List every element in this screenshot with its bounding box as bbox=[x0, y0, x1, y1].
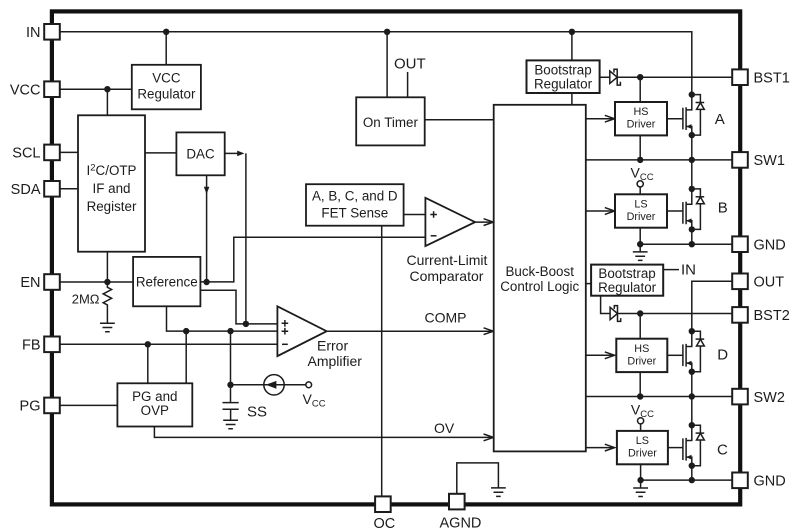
wire error amp output COMP to buck-boost logic bbox=[327, 330, 493, 332]
node: junction SW2 / FET D-C bbox=[689, 393, 695, 399]
svg-text:Regulator: Regulator bbox=[137, 87, 196, 102]
node: junction IN rail / bootstrap regulator 1 bbox=[569, 29, 575, 35]
svg-text:IN: IN bbox=[681, 262, 696, 279]
ground below SS capacitor bbox=[223, 420, 238, 429]
wire bootstrap regulator 1 top to IN rail bbox=[571, 32, 573, 61]
wire SS node branch down to capacitor bbox=[230, 331, 232, 402]
svg-text:Comparator: Comparator bbox=[410, 268, 484, 284]
wire buck-boost to LS driver C (with arrow) bbox=[586, 447, 614, 449]
svg-text:Current-Limit: Current-Limit bbox=[407, 252, 488, 268]
wire EN pin to Reference bbox=[60, 281, 133, 283]
svg-text:Regulator: Regulator bbox=[534, 77, 593, 92]
svg-text:Register: Register bbox=[87, 199, 137, 214]
node: junction BST1 / HS driver A bbox=[637, 74, 643, 80]
svg-text:Regulator: Regulator bbox=[598, 280, 657, 295]
wire LS driver B to FET B gate bbox=[667, 210, 683, 212]
wire FET B source to GND rail bbox=[691, 229, 693, 244]
svg-text:Bootstrap: Bootstrap bbox=[534, 63, 591, 78]
svg-text:SS: SS bbox=[247, 403, 267, 420]
wire DAC net vertical down to error amp + node bbox=[245, 153, 247, 324]
svg-text:HS: HS bbox=[634, 106, 649, 118]
wire bootstrap regulator 1 bottom to buck-boost logic bbox=[571, 93, 573, 105]
wire SS node to Vcc terminal through current source bbox=[231, 384, 306, 386]
pin OC bbox=[375, 496, 391, 512]
svg-text:BST1: BST1 bbox=[754, 70, 790, 86]
block Bootstrap Regulator 1 bbox=[527, 60, 600, 93]
svg-text:IN: IN bbox=[26, 25, 41, 41]
svg-text:OVP: OVP bbox=[141, 403, 169, 418]
svg-text:LS: LS bbox=[634, 199, 647, 211]
ground at AGND bbox=[491, 488, 506, 497]
svg-text:D: D bbox=[717, 346, 728, 363]
svg-text:Driver: Driver bbox=[627, 211, 656, 223]
svg-text:SW2: SW2 bbox=[754, 390, 785, 406]
ground on upper GND rail bbox=[633, 252, 648, 261]
svg-text:AGND: AGND bbox=[440, 516, 482, 532]
svg-text:OV: OV bbox=[434, 420, 455, 436]
wire VCC pin to VCC Regulator bbox=[60, 88, 132, 90]
pin SW2 bbox=[732, 389, 748, 405]
wire DAC bottom down to reference node with arrow bbox=[206, 175, 208, 282]
svg-text:2MΩ: 2MΩ bbox=[72, 291, 100, 306]
svg-text:Bootstrap: Bootstrap bbox=[598, 266, 655, 281]
wire bootstrap 2 bottom to BST2 rail with diode D2 bbox=[601, 296, 733, 314]
svg-text:C: C bbox=[717, 441, 728, 458]
wire On Timer to buck-boost logic bbox=[425, 119, 494, 121]
block LS Driver B bbox=[615, 194, 667, 227]
svg-text:FET Sense: FET Sense bbox=[321, 206, 388, 221]
block HS Driver A bbox=[615, 102, 667, 135]
wire IN rail (top) bbox=[60, 32, 692, 95]
pin GND (lower) bbox=[732, 473, 748, 489]
wire BST1 node down to HS driver A bbox=[639, 77, 641, 102]
svg-text:HS: HS bbox=[634, 343, 649, 355]
wire I2C to DAC bbox=[145, 152, 176, 154]
op-amp error amplifier bbox=[277, 306, 326, 356]
pin SDA bbox=[44, 181, 60, 197]
node: junction IN rail / VCC regulator bbox=[163, 29, 169, 35]
svg-text:Control Logic: Control Logic bbox=[500, 279, 579, 294]
wire VCC node down to I2C top bbox=[106, 89, 108, 115]
block A,B,C,D FET Sense bbox=[306, 184, 404, 226]
wire OC pin up to FET sense bbox=[381, 226, 383, 497]
wire FET sense to comparator + input bbox=[404, 214, 426, 216]
block PG and OVP bbox=[117, 383, 192, 426]
node: junction SW1 / FET A-B bbox=[689, 157, 695, 163]
wire soft-start node down to PG and OVP bbox=[185, 331, 187, 383]
wire BST2 node down to HS driver D bbox=[639, 314, 641, 339]
wire FET A source to SW1 / SW1 to FET B drain bbox=[691, 135, 693, 189]
diode D1 (schottky) bbox=[610, 69, 621, 85]
wire HS driver D to FET D gate bbox=[667, 354, 683, 356]
block VCC Regulator bbox=[132, 65, 201, 110]
svg-text:Amplifier: Amplifier bbox=[308, 353, 363, 369]
wire LS driver B to GND rail bbox=[639, 228, 641, 245]
wire GND rail (lower) bbox=[641, 479, 733, 481]
svg-text:SW1: SW1 bbox=[754, 153, 785, 169]
svg-text:VCC: VCC bbox=[152, 71, 181, 86]
node: junction GND rail / FET B source bbox=[689, 241, 695, 247]
svg-text:BST2: BST2 bbox=[754, 308, 790, 324]
wire I2C bottom to EN node bbox=[106, 252, 108, 282]
svg-text:COMP: COMP bbox=[425, 310, 467, 326]
wire LS driver C to GND rail (lower) bbox=[640, 464, 642, 480]
transistor C (low-side boost FET) bbox=[683, 422, 704, 469]
svg-text:OC: OC bbox=[374, 516, 396, 532]
svg-text:VCC: VCC bbox=[10, 82, 41, 98]
svg-text:OUT: OUT bbox=[754, 275, 785, 291]
wire FB node down to PG and OVP bbox=[147, 344, 149, 383]
block Bootstrap Regulator 2 bbox=[591, 265, 663, 296]
comparator current-limit bbox=[425, 198, 475, 246]
wire Reference out to error amp + input (upper) bbox=[200, 290, 277, 324]
pin BST2 bbox=[732, 307, 748, 323]
svg-text:Driver: Driver bbox=[627, 119, 656, 131]
resistor R 2MOhm below EN node bbox=[103, 282, 111, 323]
pin OUT bbox=[732, 274, 748, 290]
block HS Driver D bbox=[616, 339, 667, 372]
wire SDA pin to I2C bbox=[60, 188, 78, 190]
pin SW1 bbox=[732, 152, 748, 168]
svg-text:On Timer: On Timer bbox=[363, 115, 419, 130]
terminal Vcc (open circle) for SS charge current bbox=[306, 382, 312, 388]
transistor D (high-side boost FET) bbox=[683, 328, 704, 375]
wire SCL pin to I2C bbox=[60, 151, 78, 153]
svg-text:IF and: IF and bbox=[93, 181, 131, 196]
wire FET C source to GND rail (lower) bbox=[691, 466, 693, 480]
svg-text:Error: Error bbox=[317, 338, 348, 354]
ground on lower GND rail bbox=[633, 488, 648, 497]
node: junction SW1 / HS driver A bbox=[637, 157, 643, 163]
block On Timer bbox=[356, 97, 425, 145]
svg-text:FB: FB bbox=[22, 338, 41, 354]
wire BST1 rail with bootstrap diode D1 bbox=[600, 76, 733, 78]
svg-text:Reference: Reference bbox=[136, 274, 198, 289]
pin AGND bbox=[449, 494, 465, 510]
wire OUT stub into On Timer bbox=[407, 72, 409, 97]
current source (circle with left arrow) bbox=[264, 375, 284, 395]
wire LS driver C to FET C gate bbox=[668, 447, 683, 449]
svg-text:LS: LS bbox=[636, 435, 649, 447]
svg-text:GND: GND bbox=[754, 237, 786, 253]
wire buck-boost to bootstrap regulator 2 bbox=[586, 283, 591, 285]
svg-text:OUT: OUT bbox=[394, 56, 426, 73]
wire GND rail (upper) bbox=[640, 243, 732, 245]
transistor A (high-side buck FET) bbox=[683, 91, 704, 138]
wire Reference out to current-limit comparator - input bbox=[200, 237, 425, 282]
block LS Driver C bbox=[617, 431, 668, 464]
wire DAC output right with arrow bbox=[225, 152, 238, 154]
node: junction SS capacitor node bbox=[227, 382, 233, 388]
wire PG pin to PG and OVP bbox=[60, 404, 117, 406]
wire buck-boost to LS driver B (with arrow) bbox=[586, 210, 614, 212]
node: junction soft-start line / SS cap bbox=[227, 328, 233, 334]
wire SW2 rail bbox=[586, 396, 732, 398]
ground below 2MOhm resistor bbox=[100, 323, 115, 332]
node: junction Reference output / DAC bbox=[203, 279, 209, 285]
diode D2 (schottky) bbox=[610, 306, 621, 322]
wire SW1 rail bbox=[586, 159, 732, 161]
svg-text:B: B bbox=[718, 199, 728, 216]
pin GND (upper) bbox=[732, 236, 748, 252]
node: junction FB / PG-OVP bbox=[145, 341, 151, 347]
node: junction GND rail 2 / FET C source bbox=[689, 477, 695, 483]
terminal Vcc above LS driver B bbox=[637, 181, 643, 187]
svg-text:Driver: Driver bbox=[627, 355, 656, 367]
wire HS driver D to SW2 rail bbox=[639, 372, 641, 396]
transistor B (low-side buck FET) bbox=[683, 186, 704, 233]
wire VCC Regulator top to IN rail bbox=[165, 32, 167, 65]
node: junction soft-start line / PG-OVP bbox=[183, 328, 189, 334]
pin IN bbox=[44, 24, 60, 40]
pin SCL bbox=[44, 145, 60, 161]
svg-text:Driver: Driver bbox=[628, 448, 657, 460]
capacitor SS bbox=[223, 403, 239, 410]
svg-text:SDA: SDA bbox=[11, 182, 41, 198]
wire FET D source to SW2 / SW2 to FET C drain bbox=[691, 372, 693, 426]
block DAC bbox=[176, 132, 224, 175]
svg-text:GND: GND bbox=[754, 474, 786, 490]
svg-text:SCL: SCL bbox=[12, 146, 40, 162]
svg-text:DAC: DAC bbox=[186, 146, 215, 161]
node: junction VCC / I2C supply bbox=[104, 86, 110, 92]
wire Reference bottom to error amp + input (lower) bbox=[167, 306, 278, 331]
node: junction IN rail / On Timer bbox=[384, 29, 390, 35]
wire buck-boost to HS driver D (with arrow) bbox=[586, 354, 614, 356]
svg-text:A, B, C, and D: A, B, C, and D bbox=[312, 189, 398, 204]
node: junction BST2 / HS driver D bbox=[637, 310, 643, 316]
svg-text:PG and: PG and bbox=[132, 389, 177, 404]
pin BST1 bbox=[732, 69, 748, 85]
node: junction GND rail 2 / LS driver C bbox=[637, 477, 643, 483]
node: junction GND rail / LS driver B bbox=[637, 241, 643, 247]
node: junction DAC / error amp + input bbox=[243, 321, 249, 327]
svg-text:A: A bbox=[715, 111, 725, 128]
wire buck-boost to HS driver A (with arrow) bbox=[586, 118, 614, 120]
wire OUT pin to FET D drain bbox=[692, 281, 732, 331]
node: junction SW2 / HS driver D bbox=[637, 393, 643, 399]
pin PG bbox=[44, 398, 60, 414]
wire IN rail down to On Timer bbox=[386, 32, 388, 98]
pin VCC bbox=[44, 81, 60, 97]
svg-text:Buck-Boost: Buck-Boost bbox=[505, 264, 574, 279]
wire HS driver A to FET A gate bbox=[667, 118, 683, 120]
wire FB pin to error amp - input bbox=[60, 343, 277, 345]
node: junction EN node bbox=[104, 279, 110, 285]
svg-text:PG: PG bbox=[20, 399, 41, 415]
block Buck-Boost Control Logic bbox=[494, 105, 586, 452]
wire bootstrap regulator 2 to IN stub bbox=[663, 269, 679, 271]
pin FB bbox=[44, 337, 60, 353]
wire OV: PG and OVP to buck-boost logic bbox=[154, 427, 492, 438]
svg-text:EN: EN bbox=[20, 275, 40, 291]
wire HS driver A to SW1 rail bbox=[639, 135, 641, 160]
wire AGND pin to ground bbox=[457, 463, 499, 494]
block I2C/OTP IF and Register bbox=[78, 115, 145, 251]
pin EN bbox=[44, 274, 60, 290]
block Reference bbox=[133, 257, 200, 306]
wire comparator output to buck-boost logic bbox=[475, 221, 492, 223]
terminal Vcc above LS driver C bbox=[638, 418, 644, 424]
